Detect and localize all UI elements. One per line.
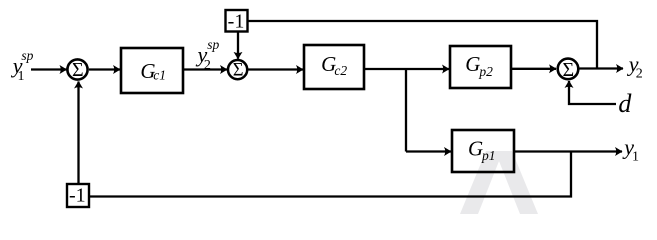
svg-text:G: G bbox=[465, 52, 480, 76]
svg-text:c1: c1 bbox=[153, 68, 166, 83]
svg-text:1: 1 bbox=[632, 149, 639, 164]
svg-text:sp: sp bbox=[207, 37, 219, 52]
svg-text:2: 2 bbox=[204, 58, 211, 73]
svg-text:d: d bbox=[618, 89, 632, 118]
svg-text:-1: -1 bbox=[228, 10, 245, 32]
svg-text:2: 2 bbox=[636, 66, 643, 81]
svg-text:1: 1 bbox=[18, 69, 25, 84]
svg-text:-1: -1 bbox=[69, 185, 86, 207]
svg-text:sp: sp bbox=[21, 48, 33, 63]
svg-text:c2: c2 bbox=[334, 63, 347, 78]
svg-text:p2: p2 bbox=[478, 64, 493, 79]
svg-text:G: G bbox=[468, 137, 483, 161]
svg-text:p1: p1 bbox=[481, 148, 496, 163]
svg-text:Σ: Σ bbox=[233, 60, 244, 80]
svg-text:Σ: Σ bbox=[562, 59, 574, 81]
svg-text:Σ: Σ bbox=[72, 59, 84, 81]
